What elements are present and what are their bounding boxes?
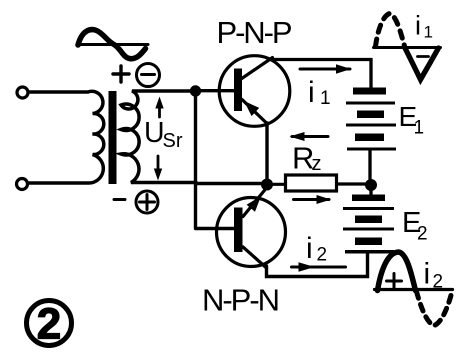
svg-text:2: 2 <box>417 224 428 245</box>
svg-text:1: 1 <box>414 118 425 139</box>
svg-text:i: i <box>308 76 315 109</box>
svg-text:i: i <box>306 232 313 265</box>
svg-text:2: 2 <box>433 272 444 293</box>
svg-text:N-P-N: N-P-N <box>202 283 280 318</box>
svg-text:U: U <box>144 117 165 149</box>
svg-text:i: i <box>415 11 421 41</box>
svg-text:i: i <box>424 258 431 291</box>
svg-text:z: z <box>312 153 322 175</box>
svg-text:1: 1 <box>320 88 331 109</box>
svg-text:P-N-P: P-N-P <box>217 15 293 50</box>
svg-text:Sr: Sr <box>163 130 183 152</box>
svg-text:2: 2 <box>317 245 328 266</box>
svg-text:1: 1 <box>424 23 433 42</box>
svg-text:2: 2 <box>37 300 61 349</box>
